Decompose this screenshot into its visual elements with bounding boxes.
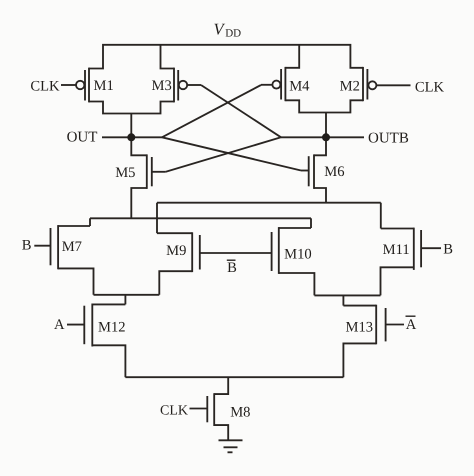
svg-text:M10: M10 (284, 247, 312, 263)
svg-text:B: B (227, 260, 237, 276)
svg-text:M13: M13 (346, 320, 374, 336)
svg-text:V: V (214, 19, 226, 38)
svg-text:M5: M5 (115, 165, 135, 181)
svg-text:A: A (406, 317, 417, 333)
svg-text:M3: M3 (152, 78, 172, 94)
svg-text:M7: M7 (62, 239, 82, 255)
svg-text:CLK: CLK (30, 78, 60, 94)
svg-text:M9: M9 (166, 243, 186, 259)
svg-text:B: B (22, 238, 32, 254)
svg-text:M2: M2 (340, 79, 360, 95)
svg-text:M11: M11 (383, 242, 410, 258)
svg-text:B: B (443, 241, 453, 257)
svg-text:CLK: CLK (415, 79, 445, 95)
svg-text:OUT: OUT (67, 130, 98, 146)
svg-text:M12: M12 (98, 319, 126, 335)
svg-text:CLK: CLK (160, 404, 188, 419)
svg-text:A: A (54, 317, 65, 333)
svg-text:M6: M6 (324, 164, 344, 180)
svg-text:M4: M4 (289, 79, 310, 95)
svg-text:DD: DD (225, 28, 241, 40)
svg-text:OUTB: OUTB (368, 131, 409, 147)
svg-text:M1: M1 (94, 78, 114, 94)
svg-text:M8: M8 (230, 404, 250, 420)
